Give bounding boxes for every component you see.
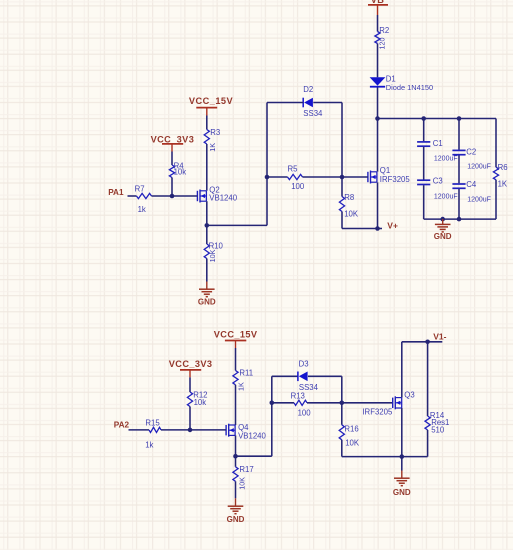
junction dot R12/PA2: [188, 428, 193, 433]
resistor R2: [375, 26, 389, 50]
wire VB to R2: [377, 15, 379, 32]
diode D1: [370, 75, 433, 93]
svg-text:10K: 10K: [345, 438, 360, 447]
svg-text:R17: R17: [239, 465, 253, 474]
wire Q3 source to GND: [401, 457, 403, 471]
resistor R6: [493, 119, 508, 220]
svg-text:R3: R3: [210, 128, 220, 137]
svg-text:VCC_15V: VCC_15V: [214, 329, 258, 339]
junction dot V1-/R14: [425, 340, 430, 345]
ground Q2: [198, 289, 216, 306]
wire R15 to Q4 gate: [161, 429, 226, 431]
wire Q1 gate: [342, 176, 368, 178]
wire C2 to C4: [458, 155, 460, 183]
svg-text:10k: 10k: [174, 168, 187, 177]
resistor R17: [233, 456, 254, 490]
svg-text:GND: GND: [198, 298, 216, 307]
wire Q1 source to V+: [377, 182, 379, 228]
gnd stem Q3: [401, 471, 403, 479]
svg-text:V1-: V1-: [433, 332, 446, 342]
wire node to caps: [378, 118, 497, 120]
wire box top left segment: [272, 375, 298, 377]
capacitor C4: [452, 180, 491, 203]
svg-text:R15: R15: [145, 419, 160, 428]
wire R8 to V+: [342, 228, 378, 230]
svg-text:D3: D3: [299, 359, 309, 368]
wire D2 right vertical: [341, 103, 343, 178]
svg-text:VCC_3V3: VCC_3V3: [169, 359, 213, 369]
wire R16 to bottom: [341, 440, 343, 457]
resistor R16: [339, 424, 360, 447]
svg-text:SS34: SS34: [303, 109, 323, 118]
svg-text:C2: C2: [466, 148, 476, 157]
svg-text:R13: R13: [291, 391, 305, 400]
wire D2 left vertical: [266, 103, 268, 226]
svg-text:C3: C3: [433, 177, 443, 186]
resistor R8: [339, 177, 358, 229]
ground caps: [434, 224, 452, 241]
svg-text:10K: 10K: [344, 209, 359, 218]
svg-text:1200uF: 1200uF: [467, 196, 491, 203]
net label PA2: [114, 421, 130, 430]
svg-text:R2: R2: [379, 26, 389, 35]
svg-text:Diode 1N4150: Diode 1N4150: [386, 83, 433, 92]
wire VCC_15V to R3: [206, 116, 208, 130]
capacitor C2: [452, 119, 491, 171]
svg-text:510: 510: [431, 425, 445, 434]
svg-text:GND: GND: [434, 232, 452, 241]
capacitor C3: [417, 177, 458, 201]
wire R17 to GND: [235, 481, 237, 498]
junction dot caps GND: [440, 217, 445, 222]
wire C1 to C3: [423, 147, 425, 180]
gnd stem caps: [442, 219, 444, 224]
wire C3 to bottom: [423, 185, 425, 219]
svg-text:R8: R8: [344, 193, 354, 202]
svg-text:C1: C1: [433, 139, 443, 148]
junction dot Q2 source: [205, 223, 210, 228]
wire bottom rail: [342, 456, 428, 458]
net label V+: [387, 220, 398, 230]
wire VCC_15V to R11: [235, 348, 237, 371]
svg-text:1k: 1k: [145, 440, 153, 449]
svg-text:1200uF: 1200uF: [467, 163, 491, 170]
wire node to Q1 drain: [377, 119, 379, 172]
svg-text:VCC_15V: VCC_15V: [189, 96, 234, 106]
ground Q4: [227, 506, 245, 524]
svg-text:D1: D1: [386, 75, 396, 84]
resistor R5: [267, 165, 342, 191]
wire R12 to PA2 net: [189, 407, 191, 430]
wire Q3 gate: [342, 402, 393, 404]
wire V+ stub: [378, 228, 383, 230]
wire box right vertical: [341, 376, 343, 425]
wire V1- top: [402, 341, 443, 343]
junction dot R5/R8/gate: [340, 175, 345, 180]
transistor Q2 VB1240: [197, 185, 237, 202]
svg-text:PA2: PA2: [114, 421, 130, 430]
resistor R14: [425, 342, 449, 457]
wire R7 to Q2 gate: [152, 195, 198, 197]
resistor R10: [204, 242, 223, 263]
net label PA1: [108, 188, 124, 197]
wire Q2 source down: [206, 201, 208, 225]
transistor Q1 IRF3205: [368, 166, 410, 184]
wire D2 top left segment: [267, 102, 303, 104]
svg-text:1200uF: 1200uF: [434, 193, 458, 200]
wire Q3 drain up: [401, 342, 403, 398]
junction dot Q4 source: [233, 454, 238, 459]
svg-text:R11: R11: [239, 368, 253, 377]
wire D2 top right segment: [313, 102, 342, 104]
svg-text:V+: V+: [387, 220, 398, 230]
svg-text:Q1: Q1: [380, 166, 390, 175]
wire VCC_3V3 to R12: [189, 377, 191, 392]
svg-text:R10: R10: [209, 242, 224, 251]
svg-text:R16: R16: [344, 424, 358, 433]
wire box top right segment: [308, 375, 342, 377]
svg-text:10K: 10K: [208, 249, 217, 262]
transistor Q4 VB1240: [226, 423, 266, 441]
junction dot R4/PA1: [170, 194, 175, 199]
svg-text:10K: 10K: [237, 477, 246, 490]
resistor R13: [272, 391, 342, 417]
svg-text:C4: C4: [466, 180, 477, 189]
diode D2 SS34: [303, 85, 323, 118]
svg-text:R5: R5: [288, 165, 299, 174]
wire D1 to node: [377, 88, 379, 119]
wire PA1 to R7: [128, 195, 137, 197]
wire R3 to Q2 drain: [206, 144, 208, 191]
wire R11 to Q4 drain: [235, 385, 237, 425]
svg-text:Q3: Q3: [404, 390, 414, 399]
power port VCC_15V: [189, 96, 234, 116]
wire Q4 source to box: [236, 455, 272, 457]
wire VCC_3V3 to R4: [171, 152, 173, 166]
svg-text:VB1240: VB1240: [209, 194, 237, 203]
svg-text:IRF3205: IRF3205: [380, 175, 411, 184]
svg-text:GND: GND: [227, 515, 245, 524]
junction dot C4 bottom: [457, 217, 462, 222]
resistor R4: [169, 161, 186, 177]
resistor R12: [187, 390, 207, 407]
wire R10 to GND: [206, 259, 208, 282]
junction dot C1 top: [421, 116, 426, 121]
wire PA2 to R15: [129, 429, 150, 431]
junction dot C2 top: [457, 116, 462, 121]
svg-text:R7: R7: [135, 184, 145, 193]
svg-text:1k: 1k: [138, 205, 146, 214]
svg-text:R6: R6: [498, 163, 508, 172]
power port VCC_3V3 bottom: [169, 359, 213, 378]
svg-text:IRF3205: IRF3205: [362, 408, 393, 417]
svg-text:1K: 1K: [498, 179, 508, 188]
junction dot R5 left: [265, 175, 270, 180]
resistor R3: [204, 128, 220, 152]
power port VCC_15V bottom: [214, 329, 258, 348]
svg-text:PA1: PA1: [108, 188, 124, 197]
net label V1-: [433, 332, 446, 342]
transistor Q3 IRF3205: [362, 390, 414, 416]
svg-text:GND: GND: [393, 488, 411, 497]
resistor R15: [145, 419, 161, 450]
wire box left vertical: [271, 376, 273, 456]
svg-text:10k: 10k: [194, 398, 207, 407]
capacitor C1: [417, 119, 458, 163]
svg-text:1K: 1K: [208, 143, 217, 152]
resistor R7: [135, 184, 152, 214]
gnd stem Q2: [206, 282, 208, 290]
wire R4 to PA1 net: [171, 178, 173, 197]
junction dot R13 left: [270, 401, 275, 406]
wire C4 to bottom: [458, 189, 460, 219]
wire bottom segment to Q2 source: [207, 224, 267, 226]
resistor R11: [233, 368, 253, 391]
power port VB: [368, 0, 388, 15]
ground Q3: [393, 478, 411, 497]
wire Q4 source down: [235, 435, 237, 456]
svg-text:1K: 1K: [237, 382, 246, 391]
svg-text:VB1240: VB1240: [238, 431, 266, 440]
junction dot node D1/Q1/caps: [375, 116, 380, 121]
junction dot R13/R16/gate: [340, 401, 345, 406]
junction dot V+: [375, 226, 380, 231]
svg-text:1200uF: 1200uF: [434, 155, 458, 162]
wire Q3 source down: [401, 408, 403, 457]
wire Q2 source to R10: [206, 225, 208, 244]
diode D3 SS34: [298, 359, 319, 392]
wire R2 to D1: [377, 44, 379, 78]
svg-text:D2: D2: [303, 85, 313, 94]
junction dot Q3 source: [400, 454, 405, 459]
wire caps bottom: [424, 218, 496, 220]
svg-text:100: 100: [291, 182, 305, 191]
gnd stem Q4: [235, 498, 237, 506]
power port VCC_3V3: [151, 135, 195, 152]
svg-text:100: 100: [298, 409, 312, 418]
svg-text:120: 120: [378, 38, 387, 50]
